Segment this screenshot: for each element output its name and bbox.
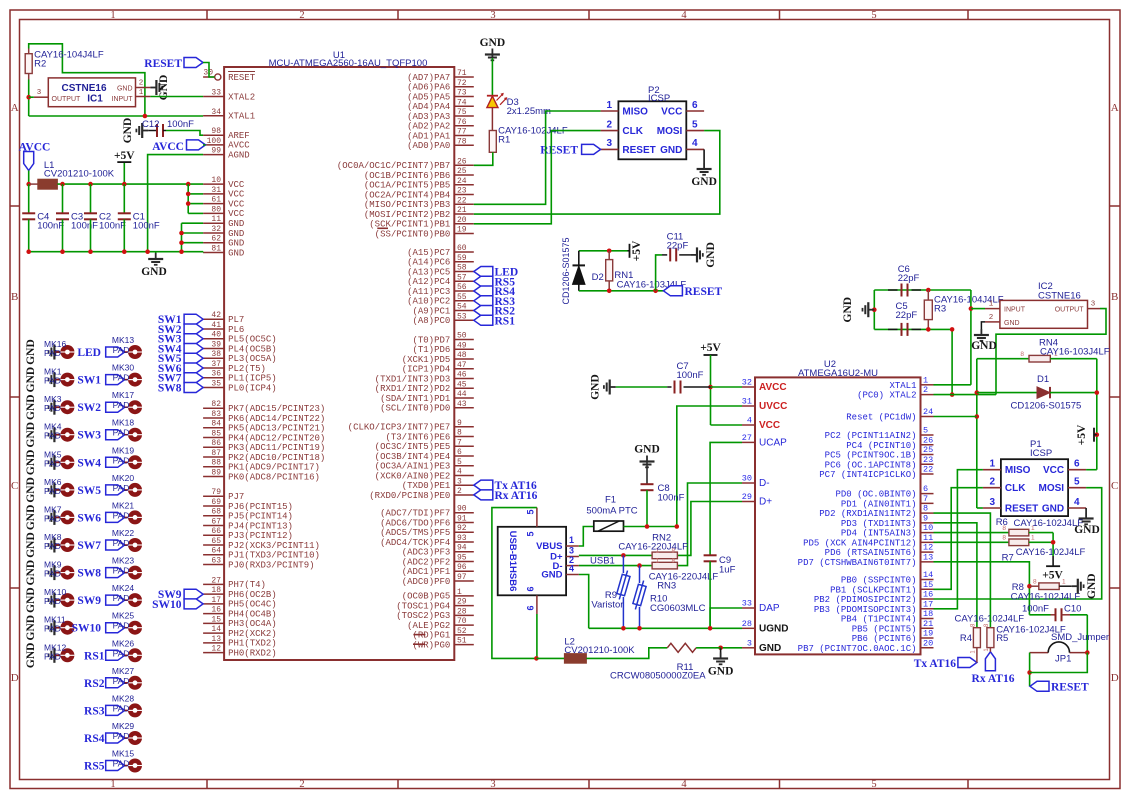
svg-text:(AD4)PA4: (AD4)PA4: [407, 102, 450, 112]
U1 pin 22 (MISO/PCINT3)PB3: [454, 203, 474, 205]
svg-text:MK23: MK23: [112, 556, 134, 566]
svg-text:PD4 (INT5AIN3): PD4 (INT5AIN3): [841, 529, 917, 539]
U1 pin 79 PJ7: [203, 495, 224, 497]
svg-text:SW6: SW6: [77, 512, 101, 524]
svg-text:GND: GND: [25, 587, 37, 613]
pad MK19: [128, 455, 142, 469]
svg-text:PH0(RXD2): PH0(RXD2): [228, 648, 277, 658]
USB pin 4 GND: [566, 574, 579, 576]
U1 pin 71 (AD7)PA7: [454, 76, 474, 78]
wire AVCC row: [711, 386, 743, 388]
svg-text:CD1206-S01575: CD1206-S01575: [561, 237, 571, 304]
svg-text:ICSP: ICSP: [648, 93, 670, 104]
svg-text:RS5: RS5: [84, 761, 105, 773]
svg-text:14: 14: [211, 625, 221, 634]
svg-text:16: 16: [211, 606, 221, 615]
svg-text:MK25: MK25: [112, 611, 134, 621]
svg-text:66: 66: [211, 527, 221, 536]
wire R1 to PB7: [474, 152, 493, 165]
wire VCC row: [711, 424, 743, 426]
U1 pin 61 VCC: [203, 203, 224, 205]
svg-text:PJ5(PCINT14): PJ5(PCINT14): [228, 512, 293, 522]
wire GND bus vertical: [181, 223, 183, 252]
svg-text:C: C: [11, 480, 18, 492]
svg-text:(PC0) XTAL2: (PC0) XTAL2: [857, 391, 916, 401]
wire IC2 output loop: [996, 309, 1106, 395]
U1 pin 58 (A13)PC5: [454, 271, 474, 273]
svg-text:CV201210-100K: CV201210-100K: [564, 645, 635, 656]
svg-text:RESET: RESET: [685, 286, 723, 298]
U2 pin 7 PD1 (AIN0INT1): [921, 502, 934, 504]
svg-text:1: 1: [656, 558, 660, 565]
svg-text:A: A: [1111, 102, 1119, 114]
junction R9 on D+ line: [621, 553, 626, 558]
svg-text:GND: GND: [25, 339, 37, 365]
net flag LED: [474, 267, 493, 277]
svg-text:50: 50: [457, 332, 467, 341]
svg-text:Tx AT16: Tx AT16: [914, 658, 957, 670]
svg-text:PAD: PAD: [44, 376, 61, 386]
U1 pin 6 (OC3B/INT4)PE4: [454, 455, 474, 457]
wire XTAL2 branch: [951, 329, 953, 394]
svg-text:3: 3: [490, 779, 495, 790]
U2 pin 22 PC7 (INT4ICP1CLKO): [921, 473, 934, 475]
svg-text:GND: GND: [759, 643, 781, 654]
U1 pin 27 PH7(T4): [203, 583, 224, 585]
U1 pin 15 PH3(OC4A): [203, 622, 224, 624]
svg-text:22: 22: [923, 465, 933, 475]
wire IC1 pin1 to XTAL2: [150, 96, 203, 98]
op-amp P1 ICSP box: [1001, 459, 1068, 516]
U1 pin 55 (A10)PC2: [454, 300, 474, 302]
svg-text:4: 4: [747, 416, 752, 426]
wire C12 to AREF: [166, 131, 203, 136]
svg-text:2x1.25mm: 2x1.25mm: [507, 106, 551, 117]
wire AGND down to ground rail: [148, 155, 204, 252]
ground crystal left: [868, 309, 874, 311]
svg-text:85: 85: [211, 429, 221, 438]
svg-text:PL0(ICP4): PL0(ICP4): [228, 383, 277, 393]
resistor R1: [489, 131, 496, 153]
svg-text:(ADC2)PF2: (ADC2)PF2: [402, 557, 451, 567]
svg-text:PB1 (SCLKPCINT1): PB1 (SCLKPCINT1): [830, 585, 916, 595]
svg-text:38: 38: [211, 350, 221, 359]
svg-text:77: 77: [457, 128, 467, 137]
svg-text:1uF: 1uF: [719, 565, 736, 576]
pad MK21: [128, 510, 142, 524]
svg-text:3: 3: [747, 638, 752, 648]
net flag Tx AT16 at PE1: [474, 480, 493, 490]
U1 pin 73 (AD5)PA5: [454, 96, 474, 98]
svg-text:GND: GND: [705, 242, 717, 268]
junction U2 reset: [975, 414, 980, 419]
U1 pin 51 (WR)PG0: [454, 644, 474, 646]
svg-text:SW1: SW1: [77, 375, 101, 387]
U1 pin 47 (ICP1)PD4: [454, 368, 474, 370]
capacitor C6: [888, 289, 898, 291]
junction gnd stem: [872, 307, 877, 312]
svg-text:(XCK0/AIN0)PE2: (XCK0/AIN0)PE2: [375, 471, 451, 481]
USB pin 2 D-: [566, 565, 579, 567]
U1 pin 80 VCC: [203, 212, 224, 214]
U2 pin 3 GND: [742, 647, 755, 649]
pad MK18: [128, 428, 142, 442]
svg-text:(CLKO/ICP3/INT7)PE7: (CLKO/ICP3/INT7)PE7: [348, 423, 451, 433]
svg-text:5: 5: [923, 426, 928, 436]
net flag RS4: [474, 286, 493, 296]
svg-text:GND: GND: [660, 145, 682, 156]
IC2 pin 1 INPUT: [985, 308, 1000, 310]
svg-text:81: 81: [211, 245, 221, 254]
svg-text:70: 70: [457, 617, 467, 626]
U1 pin 32 GND: [203, 232, 224, 234]
U1 pin 35 PL0(ICP4): [203, 386, 224, 388]
wire JP1 left down: [1029, 653, 1031, 687]
svg-text:(A13)PC5: (A13)PC5: [407, 267, 450, 277]
svg-text:PAD: PAD: [113, 593, 130, 603]
pad MK3: [60, 400, 74, 414]
U1 pin 5 (OC3A/AIN1)PE3: [454, 465, 474, 467]
junction rail: [145, 249, 150, 254]
svg-text:VBUS: VBUS: [536, 541, 562, 552]
wire P1 MISO to U2 PB3: [934, 470, 983, 609]
power +5V sideways: [628, 250, 630, 252]
svg-text:GND: GND: [25, 477, 37, 503]
svg-text:D-: D-: [759, 478, 770, 489]
net flag RS2: [474, 306, 493, 316]
P2 pin 3 RESET: [601, 148, 619, 150]
svg-text:MK28: MK28: [112, 693, 134, 703]
wire RN4 left vertical to P1 RESET: [976, 359, 978, 508]
U1 pin 74 (AD4)PA4: [454, 105, 474, 107]
svg-text:(OC3B/INT4)PE4: (OC3B/INT4)PE4: [375, 452, 451, 462]
svg-text:PH2(XCK2): PH2(XCK2): [228, 629, 277, 639]
wire D- row: [579, 565, 652, 567]
U1 pin 81 GND: [203, 252, 224, 254]
svg-text:91: 91: [457, 514, 467, 523]
wire PD7 to R8 and C10: [934, 562, 1030, 615]
svg-text:PD6 (RTSAIN5INT6): PD6 (RTSAIN5INT6): [825, 548, 917, 558]
wire P1 VCC to +5V: [1086, 469, 1097, 471]
U2 pin 25 PC5 (PCINT9OC.1B): [921, 454, 934, 456]
junction VCC bus top: [186, 182, 191, 187]
wire MK6 pad: [54, 489, 60, 491]
capacitor C10: [1029, 614, 1050, 616]
svg-text:6: 6: [1074, 459, 1080, 470]
capacitor C3: [62, 184, 64, 213]
U1 pin 2 (RXD0/PCIN8)PE0: [454, 494, 474, 496]
svg-text:MK30: MK30: [112, 363, 134, 373]
U1 pin 49 (T1)PD6: [454, 348, 474, 350]
wire bottom rail to XTAL1: [29, 115, 203, 117]
pad MK29: [128, 731, 142, 745]
svg-text:80: 80: [211, 205, 221, 214]
U2 pin 9 PD3 (TXD1INT3): [921, 522, 934, 524]
junction R7 +5V: [1051, 540, 1056, 545]
pad MK17: [128, 400, 142, 414]
svg-text:PB6 (PCINT6): PB6 (PCINT6): [852, 634, 917, 644]
svg-text:MK26: MK26: [112, 638, 134, 648]
power +5V left: [123, 162, 125, 184]
svg-text:VCC: VCC: [1043, 465, 1064, 476]
P1 pin 3 RESET: [983, 507, 1001, 509]
wire RS4 flag to pad: [125, 737, 129, 739]
svg-text:64: 64: [211, 547, 221, 556]
wire GND pin: [721, 647, 742, 649]
svg-text:10: 10: [211, 176, 221, 185]
wire P1 MOSI loop to U2 PB2: [934, 488, 1102, 599]
svg-text:(OC1B/PCINT6)PB6: (OC1B/PCINT6)PB6: [364, 171, 450, 181]
wire SW4 flag to pad: [125, 461, 129, 463]
svg-text:MK27: MK27: [112, 666, 134, 676]
U1 pin 28 (TOSC2)PG3: [454, 614, 474, 616]
svg-text:(ADC4/TCK)PF4: (ADC4/TCK)PF4: [380, 538, 450, 548]
svg-text:GND: GND: [228, 229, 244, 239]
svg-text:10: 10: [923, 523, 933, 533]
svg-text:PAD: PAD: [44, 569, 61, 579]
wire RESET flag to pin 30: [203, 63, 215, 78]
svg-text:PB7 (PCINT7OC.0AOC.1C): PB7 (PCINT7OC.0AOC.1C): [798, 644, 917, 654]
svg-text:PD0 (OC.0BINT0): PD0 (OC.0BINT0): [835, 490, 916, 500]
svg-text:33: 33: [211, 89, 221, 98]
wire UVCC to F1 node: [677, 406, 742, 527]
svg-text:89: 89: [211, 468, 221, 477]
U1 pin 46 (TXD1/INT3)PD3: [454, 378, 474, 380]
svg-text:(WR)PG0: (WR)PG0: [412, 640, 450, 650]
svg-text:(ADC5/TMS)PF5: (ADC5/TMS)PF5: [380, 528, 450, 538]
svg-text:(ALE)PG2: (ALE)PG2: [407, 621, 450, 631]
U2 pin 2 (PC0) XTAL2: [921, 394, 934, 396]
U1 pin 87 PK2(ADC10/PCINT18): [203, 456, 224, 458]
net flag RESET mid: [663, 286, 682, 296]
svg-text:1: 1: [1062, 578, 1066, 585]
ground at P2 pin 4: [703, 149, 705, 163]
wire C10 to JP1 right: [1086, 615, 1088, 653]
U1 pin 48 (XCK1)PD5: [454, 358, 474, 360]
svg-text:8: 8: [1020, 351, 1024, 358]
wire P2 MISO to U1 PB3: [474, 111, 601, 204]
U2 pin 31 UVCC: [742, 405, 755, 407]
svg-text:(ADC6/TDO)PF6: (ADC6/TDO)PF6: [380, 518, 450, 528]
junction RN1 bottom: [607, 289, 612, 294]
svg-text:RESET: RESET: [228, 73, 256, 83]
wire UCAP to C9: [710, 442, 742, 555]
svg-text:82: 82: [211, 400, 221, 409]
svg-text:47: 47: [457, 361, 467, 370]
junction: [186, 201, 191, 206]
P2 pin 6 VCC: [686, 110, 704, 112]
svg-text:R2: R2: [34, 59, 46, 70]
svg-text:PL1(ICP5): PL1(ICP5): [228, 374, 277, 384]
wire GND 11: [182, 222, 204, 224]
U1 pin 89 PK0(ADC8/PCINT16): [203, 475, 224, 477]
svg-text:PD2 (RXD1AIN1INT2): PD2 (RXD1AIN1INT2): [819, 509, 916, 519]
svg-text:(AD5)PA5: (AD5)PA5: [407, 92, 450, 102]
svg-text:6: 6: [526, 586, 536, 591]
svg-text:22: 22: [457, 196, 467, 205]
svg-text:CV201210-100K: CV201210-100K: [44, 169, 115, 180]
svg-text:MISO: MISO: [1005, 465, 1031, 476]
U1 pin 31 VCC: [203, 193, 224, 195]
svg-text:13: 13: [923, 552, 933, 562]
svg-text:62: 62: [211, 235, 221, 244]
svg-text:AVCC: AVCC: [228, 141, 250, 151]
svg-text:PAD: PAD: [113, 731, 130, 741]
junction AVCC L1: [26, 182, 31, 187]
svg-text:GND: GND: [971, 340, 997, 352]
pad MK4: [60, 428, 74, 442]
svg-text:99: 99: [211, 147, 221, 156]
U1 pin 70 (ALE)PG2: [454, 624, 474, 626]
svg-text:12: 12: [923, 543, 933, 553]
op-amp U2 box ATMEGA16U2-MU: [755, 377, 921, 654]
svg-text:100nF: 100nF: [133, 221, 160, 232]
U1 pin 98 AREF: [203, 134, 224, 136]
ground at IC2 pin 2: [981, 322, 985, 329]
overline mark near PG1: [413, 634, 425, 636]
svg-text:2: 2: [989, 477, 995, 488]
svg-text:26: 26: [457, 157, 467, 166]
svg-text:GND: GND: [25, 422, 37, 448]
svg-text:(OC3A/AIN1)PE3: (OC3A/AIN1)PE3: [375, 462, 451, 472]
resistor R8: [1029, 585, 1038, 587]
pad MK13: [128, 345, 142, 359]
junction C3 rail: [60, 182, 65, 187]
svg-text:PK2(ADC10/PCINT18): PK2(ADC10/PCINT18): [228, 453, 325, 463]
svg-text:PL4(OC5B): PL4(OC5B): [228, 344, 277, 354]
U1 pin 85 PK4(ADC12/PCINT20): [203, 436, 224, 438]
svg-text:GND: GND: [590, 374, 602, 400]
U1 pin 92 (ADC5/TMS)PF5: [454, 531, 474, 533]
svg-text:GND: GND: [25, 560, 37, 586]
svg-text:PK3(ADC11/PCINT19): PK3(ADC11/PCINT19): [228, 443, 325, 453]
junction: [179, 240, 184, 245]
net flag RS5: [474, 276, 493, 286]
U1 pin 29 (TOSC1)PG4: [454, 605, 474, 607]
varistor R10: [639, 566, 641, 583]
svg-text:PK7(ADC15/PCINT23): PK7(ADC15/PCINT23): [228, 404, 325, 414]
svg-text:PK5(ADC13/PCINT21): PK5(ADC13/PCINT21): [228, 424, 325, 434]
pad MK22: [128, 538, 142, 552]
svg-text:PH4(OC4B): PH4(OC4B): [228, 609, 277, 619]
svg-text:6: 6: [457, 448, 462, 457]
ground at C11: [691, 254, 697, 256]
U1 pin 17 PH5(OC4C): [203, 603, 224, 605]
U2 pin 18 PB4 (T1PCINT4): [921, 618, 934, 620]
svg-text:PAD: PAD: [113, 455, 130, 465]
wire +5V rail to VCC pin 10: [57, 183, 203, 185]
svg-text:(A14)PC6: (A14)PC6: [407, 258, 450, 268]
svg-text:16: 16: [923, 590, 933, 600]
svg-text:19: 19: [923, 629, 933, 639]
svg-text:PJ7: PJ7: [228, 492, 244, 502]
svg-text:17: 17: [923, 599, 933, 609]
svg-text:32: 32: [742, 378, 752, 388]
svg-text:83: 83: [211, 410, 221, 419]
svg-text:SW8: SW8: [158, 382, 182, 394]
wire R2 top to XTAL2 net vertical: [29, 44, 145, 116]
svg-text:(ADC7/TDI)PF7: (ADC7/TDI)PF7: [380, 509, 450, 519]
svg-text:100nF: 100nF: [658, 493, 685, 504]
svg-text:4: 4: [681, 779, 687, 790]
svg-text:PH1(TXD2): PH1(TXD2): [228, 639, 277, 649]
svg-text:PK1(ADC9/PCINT17): PK1(ADC9/PCINT17): [228, 463, 320, 473]
svg-text:MOSI: MOSI: [1039, 483, 1065, 494]
IC1 pin 3: [34, 96, 49, 98]
U1 pin 66 PJ3(PCINT12): [203, 534, 224, 536]
svg-text:VCC: VCC: [228, 180, 245, 190]
svg-text:PJ6(PCINT15): PJ6(PCINT15): [228, 502, 293, 512]
svg-text:GND: GND: [25, 532, 37, 558]
svg-text:PAD: PAD: [113, 345, 130, 355]
svg-text:76: 76: [457, 118, 467, 127]
svg-text:67: 67: [211, 517, 221, 526]
U1 pin 45 (RXD1/INT2)PD2: [454, 387, 474, 389]
overline mark near PB0: [377, 227, 388, 229]
svg-text:90: 90: [457, 505, 467, 514]
svg-text:4: 4: [457, 468, 462, 477]
svg-text:ICSP: ICSP: [1030, 448, 1052, 459]
svg-text:PL2(T5): PL2(T5): [228, 364, 266, 374]
svg-text:22pF: 22pF: [896, 310, 918, 321]
U1 pin 83 PK6(ADC14/PCINT22): [203, 417, 224, 419]
USB shield pin 6 bottom: [536, 595, 538, 614]
U1 pin 7 (OC3C/INT5)PE5: [454, 445, 474, 447]
wire VCC 61: [188, 203, 203, 205]
svg-text:100nF: 100nF: [99, 221, 126, 232]
svg-text:100nF: 100nF: [1022, 604, 1049, 615]
wire MK12 pad: [54, 654, 60, 656]
jumper JP1 SMD_Jumper: [1030, 652, 1049, 654]
svg-text:2: 2: [457, 487, 462, 496]
svg-text:8: 8: [923, 504, 928, 514]
U1 pin 10 VCC: [203, 183, 224, 185]
svg-text:31: 31: [211, 186, 221, 195]
svg-text:1: 1: [457, 588, 462, 597]
wire F1 to UVCC node: [624, 526, 677, 528]
U1 pin 34 XTAL1: [203, 115, 224, 117]
svg-text:GND: GND: [691, 176, 717, 188]
svg-text:PL5(OC5C): PL5(OC5C): [228, 335, 277, 345]
svg-text:65: 65: [211, 537, 221, 546]
P1 pin 2 CLK: [983, 487, 1001, 489]
svg-text:14: 14: [923, 570, 933, 580]
U1 pin 44 (SDA/INT1)PD1: [454, 397, 474, 399]
U2 pin 14 PB0 (SSPCINT0): [921, 579, 934, 581]
svg-text:28: 28: [742, 619, 752, 629]
svg-text:(T3/INT6)PE6: (T3/INT6)PE6: [385, 432, 450, 442]
U1 pin 16 PH4(OC4B): [203, 613, 224, 615]
svg-text:97: 97: [457, 573, 467, 582]
U2 pin 27 UCAP: [742, 441, 755, 443]
svg-text:DAP: DAP: [759, 603, 780, 614]
svg-text:PAD: PAD: [44, 651, 61, 661]
svg-text:PD7 (CTSHWBAIN6T0INT7): PD7 (CTSHWBAIN6T0INT7): [798, 558, 917, 568]
svg-text:(TXD0)PE1: (TXD0)PE1: [402, 481, 451, 491]
svg-text:87: 87: [211, 449, 221, 458]
junction +5V node: [1095, 432, 1100, 437]
svg-text:+5V: +5V: [114, 150, 135, 162]
led D3: [487, 95, 498, 97]
U1 pin 59 (A14)PC6: [454, 261, 474, 263]
U1 pin 90 (ADC7/TDI)PF7: [454, 512, 474, 514]
junction R3 top: [926, 288, 931, 293]
U2 pin 10 PD4 (INT5AIN3): [921, 532, 934, 534]
svg-text:2: 2: [299, 779, 304, 790]
junction rail: [122, 249, 127, 254]
U1 pin 53 (A8)PC0: [454, 319, 474, 321]
U2 pin 11 PD5 (XCK AIN4PCINT12): [921, 541, 934, 543]
